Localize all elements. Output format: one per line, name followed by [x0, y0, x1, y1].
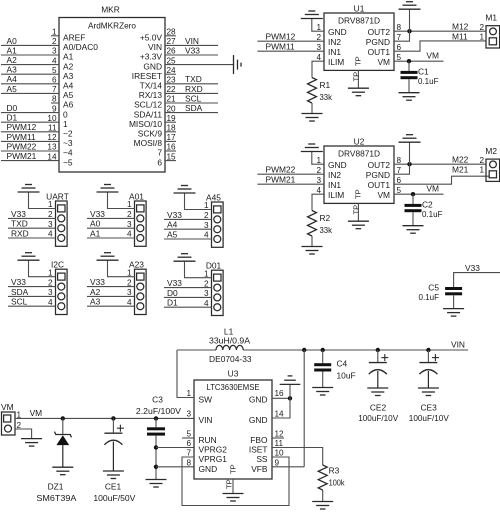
svg-text:D1: D1 — [7, 113, 18, 123]
svg-text:ISET: ISET — [249, 445, 268, 455]
svg-text:FBO: FBO — [250, 435, 268, 445]
svg-text:VFB: VFB — [251, 464, 268, 474]
wire UART pin1 to ground — [29, 192, 56, 209]
inductor L1 coil — [216, 345, 243, 350]
wire C3 tap to U3 GND pin8 — [156, 466, 194, 468]
svg-text:2: 2 — [479, 156, 484, 165]
diode DZ1 SM6T39A — [62, 418, 64, 434]
svg-text:~4: ~4 — [63, 148, 73, 158]
wire U3 SW up to inductor rail — [177, 350, 194, 398]
svg-text:20: 20 — [167, 104, 177, 113]
MKR pin 8 stub — [51, 102, 59, 104]
svg-text:8: 8 — [186, 459, 191, 468]
svg-text:1: 1 — [127, 268, 132, 277]
svg-text:1: 1 — [48, 268, 53, 277]
ground below DZ1 — [52, 466, 73, 468]
svg-text:SCL: SCL — [11, 297, 28, 307]
wire net V33 to I2C — [8, 286, 56, 288]
svg-text:17: 17 — [167, 133, 177, 142]
wire net PWM21 to U2 IN1 — [257, 183, 324, 185]
svg-text:VM: VM — [377, 190, 390, 200]
svg-text:OUT1: OUT1 — [368, 47, 391, 57]
svg-text:OUT1: OUT1 — [368, 180, 391, 190]
junction VM at CE1 — [111, 416, 115, 420]
ground below R1 — [302, 113, 323, 115]
wire U1 PGND to ground — [394, 9, 410, 41]
svg-text:6: 6 — [52, 76, 57, 85]
ground below C3 — [146, 479, 167, 481]
svg-text:R3: R3 — [329, 466, 340, 476]
svg-text:3: 3 — [186, 410, 191, 419]
connector I2C pin 2 pad — [58, 283, 65, 290]
svg-text:9: 9 — [52, 104, 57, 113]
svg-text:3: 3 — [204, 221, 209, 230]
svg-text:1: 1 — [127, 200, 132, 209]
svg-text:7: 7 — [52, 85, 57, 94]
junction U3 GND pins — [288, 396, 292, 400]
svg-text:11: 11 — [275, 439, 284, 448]
wire U3 VFB pin9 — [272, 466, 304, 468]
wire net RXD to UART — [8, 237, 56, 239]
svg-text:5: 5 — [52, 66, 57, 75]
svg-text:I2C: I2C — [51, 260, 64, 270]
svg-text:LTC3630EMSE: LTC3630EMSE — [207, 382, 260, 392]
svg-text:RX/13: RX/13 — [139, 90, 163, 100]
wire A23 pin1 to ground — [108, 260, 135, 277]
svg-text:2: 2 — [48, 210, 53, 219]
svg-text:GND: GND — [143, 61, 162, 71]
junction VM at DZ1 — [61, 416, 65, 420]
svg-text:4: 4 — [127, 230, 132, 239]
connector A45 pin 2 pad — [214, 216, 221, 223]
svg-text:A6: A6 — [63, 100, 74, 110]
svg-text:SCK/9: SCK/9 — [138, 129, 163, 139]
svg-text:DZ1: DZ1 — [48, 482, 64, 492]
svg-text:A0: A0 — [90, 219, 101, 229]
svg-text:IN2: IN2 — [328, 37, 341, 47]
svg-text:SDA: SDA — [11, 287, 29, 297]
wire C2 to ground — [412, 212, 414, 226]
svg-text:A4: A4 — [167, 220, 178, 230]
connector A45 pin 3 pad — [214, 226, 221, 233]
connector A23 outline — [135, 269, 147, 314]
connector UART pin 3 pad — [58, 225, 65, 232]
wire net A1 to A01 — [87, 237, 135, 239]
svg-text:+5.0V: +5.0V — [140, 33, 163, 43]
connector A45 pin 1 pad — [214, 206, 221, 213]
svg-text:1: 1 — [479, 166, 484, 175]
svg-text:VM: VM — [1, 402, 14, 412]
junction VM at C3 — [154, 416, 158, 420]
wire U3 GND pin16 — [272, 397, 290, 399]
connector A01 pin 3 pad — [137, 225, 144, 232]
wire net A5 to A45 — [164, 238, 212, 240]
wire net SDA to I2C — [8, 295, 56, 297]
wire U1 ILIM to R1 — [312, 61, 324, 77]
wire U2 pin1 GND to ground — [312, 152, 324, 165]
svg-text:A2: A2 — [90, 287, 101, 297]
svg-text:TP: TP — [354, 56, 363, 66]
svg-text:5: 5 — [397, 53, 402, 62]
svg-text:~3: ~3 — [63, 138, 73, 148]
svg-text:V33: V33 — [90, 277, 105, 287]
svg-text:DE0704-33: DE0704-33 — [209, 354, 252, 364]
svg-text:V33: V33 — [167, 210, 182, 220]
wire net PWM21 to MKR pin 14 — [1, 160, 59, 162]
svg-text:VM: VM — [426, 183, 439, 193]
ground below U3 TP — [223, 493, 244, 495]
svg-text:26: 26 — [167, 47, 177, 56]
MKR pin 18 stub — [165, 131, 176, 133]
svg-text:13: 13 — [47, 143, 57, 152]
ground above A01 — [97, 191, 119, 193]
svg-text:TP: TP — [225, 479, 234, 489]
wire VM to C1 — [408, 61, 410, 71]
ground above U1 pin1 — [301, 18, 323, 20]
svg-text:24: 24 — [167, 66, 177, 75]
svg-text:ILIM: ILIM — [328, 57, 344, 67]
connector D01 pin 3 pad — [214, 294, 221, 301]
capacitor C3 — [155, 418, 157, 427]
junction rail at CE3 — [426, 348, 430, 352]
svg-text:8: 8 — [52, 95, 57, 104]
wire net A4 to MKR pin 6 — [1, 83, 59, 85]
connector UART pin 2 pad — [58, 215, 65, 222]
ground below VM pin2 — [21, 438, 42, 440]
wire net TXD from MKR pin 23 — [165, 83, 218, 85]
svg-text:A5: A5 — [167, 229, 178, 239]
wire D01 pin1 to ground — [185, 261, 212, 278]
svg-text:A4: A4 — [7, 74, 18, 84]
wire net PWM22 to MKR pin 13 — [1, 150, 59, 152]
svg-text:2: 2 — [52, 37, 57, 46]
svg-text:C2: C2 — [422, 200, 433, 210]
wire net RXD from MKR pin 22 — [165, 92, 218, 94]
svg-text:0: 0 — [63, 109, 68, 119]
connector D01 outline — [212, 270, 224, 315]
IC U3 LTC3630EMSE outline — [194, 380, 272, 479]
svg-text:16: 16 — [167, 143, 177, 152]
svg-text:A2: A2 — [63, 61, 74, 71]
wire output rail to VIN — [243, 349, 468, 351]
svg-text:C4: C4 — [337, 359, 348, 369]
MKR pin 17 stub — [165, 140, 176, 142]
wire U1 OUT1 net M11 to connector — [394, 41, 486, 51]
wire net PWM22 to U2 IN2 — [257, 173, 324, 175]
svg-text:1: 1 — [204, 269, 209, 278]
svg-text:VIN: VIN — [451, 340, 465, 350]
junction rail at CE2 — [376, 348, 380, 352]
svg-text:5: 5 — [397, 186, 402, 195]
svg-text:AREF: AREF — [63, 33, 85, 43]
svg-text:SCL/12: SCL/12 — [134, 100, 162, 110]
wire R2 to ground — [311, 236, 313, 247]
svg-text:GND: GND — [328, 27, 347, 37]
wire U2 VM pin — [394, 193, 444, 195]
svg-text:2: 2 — [127, 278, 132, 287]
svg-text:4: 4 — [316, 53, 321, 62]
wire A45 pin1 to ground — [185, 193, 212, 210]
wire C3 to ground with taps — [155, 436, 157, 480]
svg-text:DRV8871D: DRV8871D — [338, 16, 380, 26]
connector UART pin 4 pad — [58, 235, 65, 242]
ground below U1 TP — [348, 87, 369, 89]
svg-text:V33: V33 — [465, 263, 480, 273]
svg-text:U1: U1 — [354, 4, 365, 14]
svg-text:3: 3 — [127, 288, 132, 297]
svg-text:23: 23 — [167, 76, 177, 85]
wire C1 to ground — [408, 79, 410, 93]
svg-text:3: 3 — [48, 288, 53, 297]
connector M2 pin 1 pad — [489, 171, 496, 178]
svg-text:R1: R1 — [320, 80, 331, 90]
svg-text:1: 1 — [204, 201, 209, 210]
wire C4 to ground — [322, 372, 324, 388]
svg-text:5: 5 — [186, 430, 191, 439]
wire I2C pin1 to ground — [29, 260, 56, 277]
svg-text:0.1uF: 0.1uF — [419, 292, 440, 302]
svg-text:TP: TP — [352, 205, 361, 215]
wire U1 VM pin — [394, 60, 444, 62]
wire net D1 to D01 — [164, 306, 212, 308]
wire U2 PGND to ground — [394, 142, 410, 174]
U2 thermal pad TP wire — [357, 203, 359, 221]
wire U1 pin1 GND to ground — [312, 19, 324, 32]
wire U2 OUT2 net M22 to connector — [394, 163, 486, 165]
svg-text:0.1uF: 0.1uF — [422, 209, 443, 219]
wire net A1 to MKR pin 3 — [1, 54, 59, 56]
svg-text:2: 2 — [127, 210, 132, 219]
capacitor CE2 (electrolytic) — [377, 350, 379, 363]
svg-text:IRESET: IRESET — [132, 71, 162, 81]
svg-text:PWM11: PWM11 — [7, 132, 37, 142]
svg-text:7: 7 — [157, 148, 162, 158]
svg-text:OUT2: OUT2 — [368, 160, 391, 170]
svg-text:ILIM: ILIM — [328, 190, 344, 200]
svg-text:4: 4 — [204, 231, 209, 240]
svg-text:GND: GND — [199, 464, 218, 474]
svg-text:22: 22 — [167, 85, 177, 94]
svg-text:7: 7 — [397, 33, 402, 42]
svg-text:VIN: VIN — [148, 42, 162, 52]
svg-text:MISO/10: MISO/10 — [129, 119, 162, 129]
svg-text:1: 1 — [52, 28, 57, 37]
wire U2 ILIM to R2 — [312, 194, 324, 210]
wire MKR pin 25 GND — [165, 64, 234, 66]
IC MKR ArdMKRZero outline — [59, 18, 165, 173]
svg-text:A3: A3 — [63, 71, 74, 81]
svg-text:CE2: CE2 — [370, 403, 387, 413]
svg-text:V33: V33 — [11, 209, 26, 219]
svg-text:SCL: SCL — [185, 93, 202, 103]
svg-text:25: 25 — [167, 56, 177, 65]
svg-text:A0/DAC0: A0/DAC0 — [63, 42, 98, 52]
svg-text:10uF: 10uF — [337, 371, 356, 381]
wire net A0 to MKR pin 2 — [1, 44, 59, 46]
svg-text:1: 1 — [316, 156, 321, 165]
svg-text:SW: SW — [199, 395, 213, 405]
svg-text:TX/14: TX/14 — [140, 81, 163, 91]
connector M2 pin 2 pad — [490, 161, 497, 168]
svg-text:14: 14 — [47, 152, 57, 161]
svg-text:VIN: VIN — [199, 415, 213, 425]
ground below CE3 — [418, 387, 439, 389]
svg-text:A2: A2 — [7, 55, 18, 65]
svg-text:A5: A5 — [7, 84, 18, 94]
connector A01 pin 1 pad — [137, 205, 144, 212]
svg-text:18: 18 — [167, 124, 177, 133]
wire net PWM12 to U1 IN2 — [257, 40, 324, 42]
wire net SDA from MKR pin 20 — [165, 112, 218, 114]
svg-text:A3: A3 — [7, 65, 18, 75]
connector UART outline — [56, 201, 68, 246]
wire R3 to ground — [322, 490, 324, 502]
svg-text:TXD: TXD — [185, 74, 202, 84]
svg-text:VIN: VIN — [185, 36, 199, 46]
connector A01 outline — [135, 201, 147, 246]
svg-text:SM6T39A: SM6T39A — [36, 493, 76, 503]
ground above U3 GND pins — [280, 383, 301, 385]
svg-text:2: 2 — [204, 211, 209, 220]
inductor L1 rail left segment — [177, 349, 216, 351]
connector M1 outline — [486, 26, 500, 48]
svg-text:MKR: MKR — [101, 5, 120, 15]
svg-text:PWM22: PWM22 — [266, 165, 296, 175]
connector A45 pin 4 pad — [214, 236, 221, 243]
svg-text:8: 8 — [397, 23, 402, 32]
svg-text:R2: R2 — [320, 213, 331, 223]
junction VM at C2 — [411, 192, 415, 196]
svg-text:6: 6 — [157, 157, 162, 167]
svg-text:VM: VM — [377, 57, 390, 67]
capacitor C4 — [322, 350, 324, 363]
wire VFB sense vertical — [303, 350, 305, 467]
svg-text:D0: D0 — [7, 103, 18, 113]
wire net A3 to A23 — [87, 305, 135, 307]
svg-text:MOSI/8: MOSI/8 — [134, 138, 163, 148]
connector D01 pin 1 pad — [214, 274, 221, 281]
wire net VIN from MKR pin 27 — [165, 44, 218, 46]
svg-text:CE1: CE1 — [105, 482, 122, 492]
wire A01 pin1 to ground — [108, 192, 135, 209]
MKR pin 16 stub — [165, 150, 176, 152]
wire VM to C2 — [412, 194, 414, 204]
capacitor C2 — [405, 204, 422, 207]
svg-text:12: 12 — [47, 133, 57, 142]
svg-text:D0: D0 — [167, 288, 178, 298]
svg-text:100uF/10V: 100uF/10V — [409, 413, 449, 423]
svg-text:2: 2 — [48, 278, 53, 287]
resistor R1 — [308, 78, 317, 104]
svg-text:0.1uF: 0.1uF — [418, 76, 439, 86]
svg-text:28: 28 — [167, 28, 177, 37]
svg-text:TP: TP — [354, 189, 363, 199]
capacitor C1 — [401, 71, 418, 74]
connector VM outline — [2, 412, 16, 435]
svg-text:IN1: IN1 — [328, 47, 341, 57]
wire VM pin2 to ground — [15, 429, 32, 439]
connector D01 pin 4 pad — [214, 304, 221, 311]
ground above D01 — [174, 260, 196, 262]
resistor R2 — [308, 211, 317, 237]
svg-text:3: 3 — [127, 220, 132, 229]
svg-text:9: 9 — [275, 459, 280, 468]
connector A23 pin 1 pad — [137, 273, 144, 280]
svg-text:C1: C1 — [418, 67, 429, 77]
wire net V33 to A01 — [87, 217, 135, 219]
ground above U2 pin1 — [301, 151, 323, 153]
U3 pin12 FBO stub — [272, 437, 284, 439]
svg-text:GND: GND — [249, 415, 268, 425]
svg-text:1: 1 — [48, 200, 53, 209]
connector A23 pin 4 pad — [137, 303, 144, 310]
op-amp U2 DRV8871D outline — [324, 146, 394, 203]
svg-text:RXD: RXD — [185, 84, 203, 94]
svg-text:11: 11 — [48, 124, 57, 133]
svg-text:33uH/0.9A: 33uH/0.9A — [209, 336, 250, 346]
connector I2C pin 3 pad — [58, 293, 65, 300]
svg-text:TP: TP — [352, 72, 361, 82]
svg-text:PWM11: PWM11 — [266, 42, 296, 52]
wire net V33 to A45 — [164, 218, 212, 220]
svg-text:SDA: SDA — [185, 103, 203, 113]
svg-text:2: 2 — [316, 166, 321, 175]
junction C3 to U3 VPRG2 — [154, 445, 158, 449]
ground below C2 — [403, 225, 424, 227]
ground below C4 — [312, 387, 333, 389]
svg-text:14: 14 — [275, 410, 285, 419]
svg-text:27: 27 — [167, 37, 177, 46]
svg-text:M1: M1 — [485, 13, 497, 23]
svg-text:M12: M12 — [452, 22, 469, 32]
connector VM pin 1 pad — [4, 415, 11, 422]
svg-text:4: 4 — [204, 299, 209, 308]
ground below U2 TP — [348, 220, 369, 222]
svg-text:7: 7 — [186, 449, 191, 458]
svg-text:A5: A5 — [63, 90, 74, 100]
wire net V33 to D01 — [164, 287, 212, 289]
svg-text:A0: A0 — [7, 36, 18, 46]
svg-text:PWM12: PWM12 — [7, 122, 37, 132]
svg-text:3: 3 — [204, 289, 209, 298]
svg-text:M11: M11 — [452, 31, 468, 41]
svg-text:2.2uF/100V: 2.2uF/100V — [136, 406, 181, 416]
wire net A2 to A23 — [87, 295, 135, 297]
wire net SCL to I2C — [8, 305, 56, 307]
svg-text:SS: SS — [256, 454, 268, 464]
resistor R3 — [318, 465, 327, 490]
wire U3 GND pin14 up to pin16 — [272, 384, 290, 418]
wire net A5 to MKR pin 7 — [1, 92, 59, 94]
wire net V33 to C5 — [454, 273, 500, 287]
svg-text:6: 6 — [397, 176, 402, 185]
svg-text:A4: A4 — [63, 81, 74, 91]
svg-text:CE3: CE3 — [420, 403, 437, 413]
wire net D0 to MKR pin 9 — [1, 112, 59, 114]
svg-text:100k: 100k — [329, 477, 346, 487]
ground above A23 — [97, 259, 119, 261]
MKR pin 1 stub — [51, 35, 59, 37]
svg-text:IN1: IN1 — [328, 180, 341, 190]
junction VM at C1 — [407, 59, 411, 63]
MKR pin 19 stub — [165, 121, 176, 123]
svg-text:U3: U3 — [228, 369, 239, 379]
svg-text:C3: C3 — [152, 395, 163, 405]
svg-text:3: 3 — [316, 176, 321, 185]
svg-text:A1: A1 — [7, 45, 18, 55]
op-amp U1 DRV8871D outline — [324, 13, 394, 70]
capacitor C5 — [445, 287, 462, 290]
